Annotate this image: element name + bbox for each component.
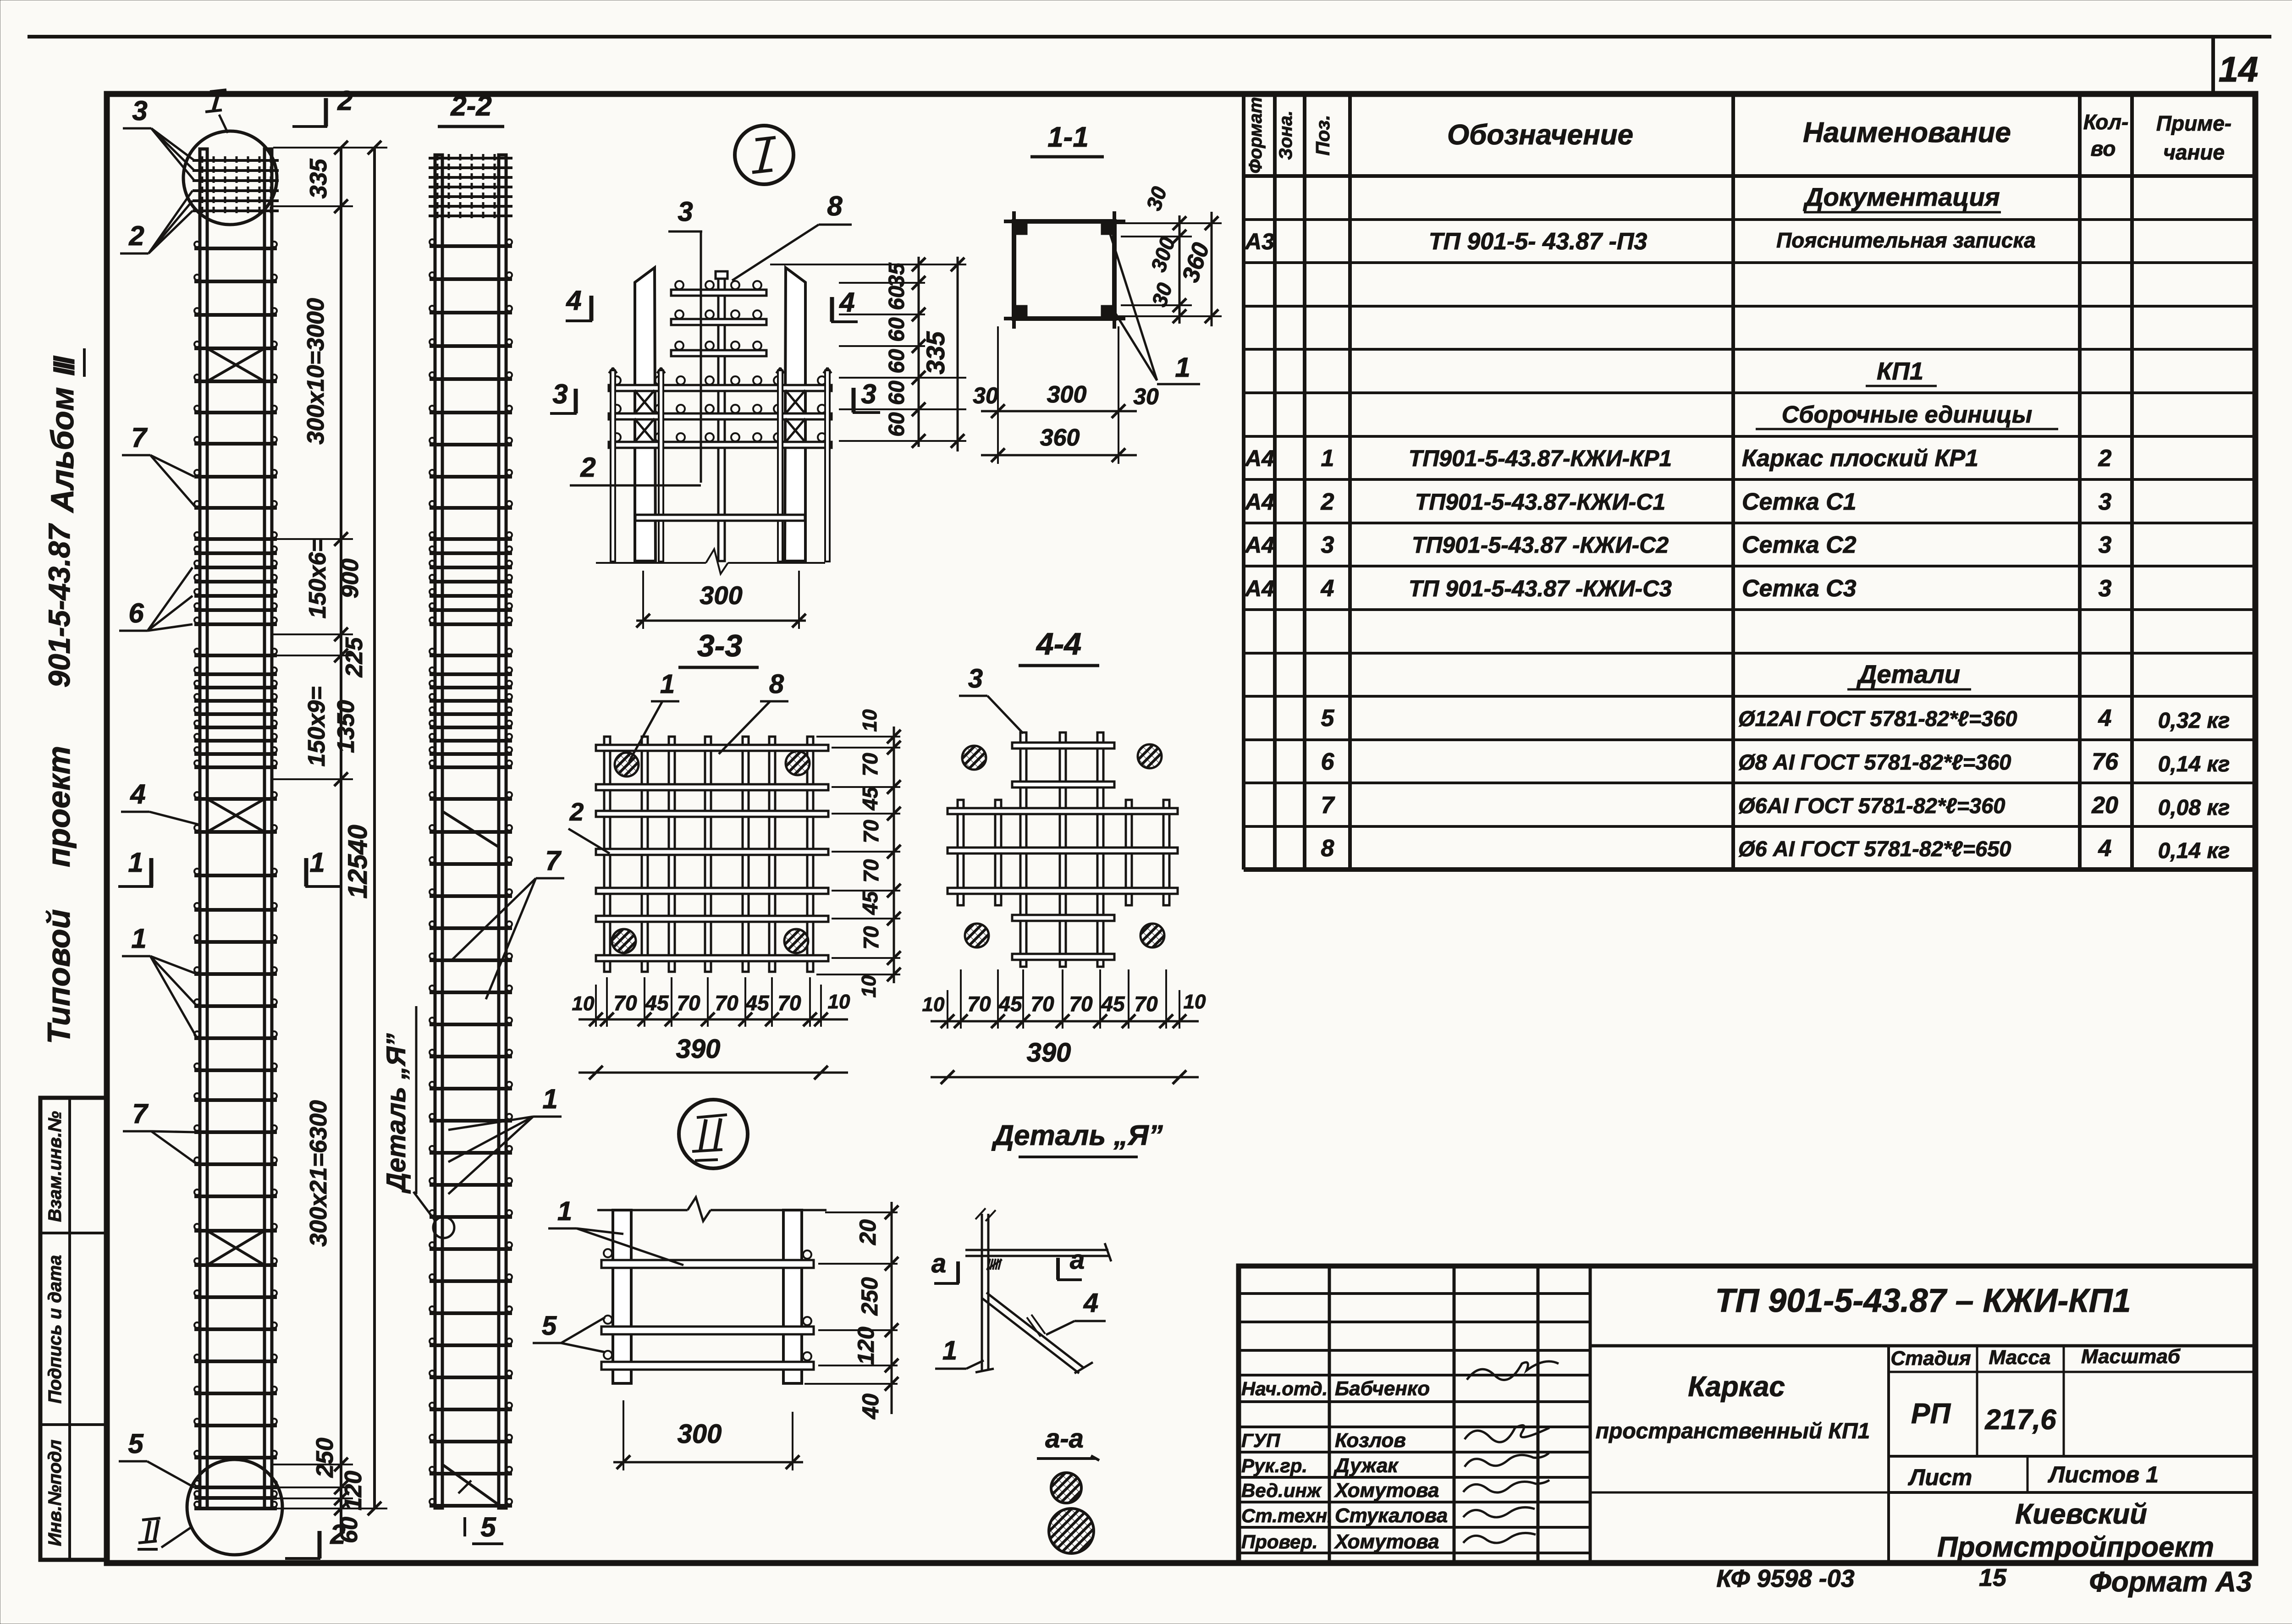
2-2 view: cross ties (rungs) — [430, 244, 512, 248]
svg-text:Документация: Документация — [1803, 182, 2000, 211]
2-2 view: top mesh zone lines — [429, 157, 512, 160]
detail II: right chord bar — [783, 1210, 802, 1383]
3-3 mesh horizontal wires — [596, 745, 828, 751]
detail I: bottom break line — [596, 562, 706, 564]
svg-text:335: 335 — [921, 331, 950, 374]
svg-text:1: 1 — [1321, 445, 1334, 472]
svg-text:7: 7 — [545, 845, 562, 876]
svg-text:4-4: 4-4 — [1036, 627, 1081, 661]
svg-text:70: 70 — [613, 991, 637, 1015]
svg-text:150х6=: 150х6= — [304, 539, 331, 619]
detail II bottom 300 dimension — [623, 1400, 624, 1470]
detail I: right flat bar — [785, 268, 805, 561]
dimension chain line (segments) — [340, 148, 342, 1533]
svg-text:ГУП: ГУП — [1241, 1430, 1280, 1451]
KP1 elevation: cross ties (rungs) — [194, 247, 277, 250]
svg-text:0,32 кг: 0,32 кг — [2158, 709, 2230, 733]
3-3 overall 390 dimension — [579, 1072, 848, 1074]
svg-text:2: 2 — [2098, 445, 2112, 472]
svg-text:Наименование: Наименование — [1803, 117, 2011, 149]
svg-text:335: 335 — [305, 159, 332, 199]
svg-text:Хомутова: Хомутова — [1333, 1530, 1439, 1553]
svg-text:3-3: 3-3 — [697, 628, 742, 663]
svg-text:70: 70 — [1134, 992, 1158, 1016]
svg-text:Провер.: Провер. — [1241, 1531, 1318, 1552]
title block name cell: Каркас пространственный КП1 — [1887, 1346, 1890, 1563]
svg-text:217,6: 217,6 — [1984, 1404, 2056, 1436]
svg-text:Ø6АI ГОСТ 5781-82*ℓ=360: Ø6АI ГОСТ 5781-82*ℓ=360 — [1738, 793, 2005, 818]
svg-text:5: 5 — [542, 1311, 557, 1341]
svg-text:1: 1 — [942, 1336, 957, 1365]
svg-text:Листов 1: Листов 1 — [2048, 1462, 2159, 1487]
svg-text:А3: А3 — [1244, 229, 1274, 254]
specification table grid — [1242, 94, 1245, 870]
svg-text:30: 30 — [973, 383, 998, 408]
detail II: weld dots — [604, 1249, 612, 1257]
svg-text:7: 7 — [132, 1098, 149, 1129]
svg-text:Альбом: Альбом — [44, 387, 80, 513]
svg-text:a-a: a-a — [1045, 1424, 1084, 1453]
svg-text:Рук.гр.: Рук.гр. — [1241, 1455, 1307, 1476]
svg-text:Деталь „Я”: Деталь „Я” — [381, 1033, 411, 1194]
detail I dimension extension lines — [770, 264, 966, 265]
svg-text:КП1: КП1 — [1877, 358, 1923, 385]
2-2 view: left chord rail — [435, 155, 442, 1508]
svg-text:проект: проект — [41, 746, 77, 867]
section 1-1 corner bars — [1014, 222, 1027, 235]
svg-text:Ø8 АI ГОСТ 5781-82*ℓ=360: Ø8 АI ГОСТ 5781-82*ℓ=360 — [1738, 750, 2011, 774]
2-2 view: diagonal brace bottom — [442, 1464, 499, 1505]
svg-text:Киевский: Киевский — [2015, 1498, 2147, 1530]
svg-text:ТП 901-5- 43.87 -П3: ТП 901-5- 43.87 -П3 — [1429, 228, 1647, 255]
3-3 longitudinal bars (hatched) — [615, 753, 639, 776]
svg-text:30: 30 — [1133, 384, 1159, 409]
dimension ticks — [334, 141, 348, 154]
title block outer box — [1239, 1266, 2255, 1563]
svg-text:a: a — [931, 1249, 946, 1278]
svg-text:45: 45 — [858, 891, 882, 915]
svg-text:Каркас плоский КР1: Каркас плоский КР1 — [1742, 445, 1978, 472]
svg-text:3: 3 — [1321, 532, 1334, 558]
svg-text:360: 360 — [1040, 424, 1080, 451]
svg-text:3: 3 — [968, 664, 983, 694]
section 1-1 callout 1 — [1109, 231, 1157, 380]
svg-text:150х9=: 150х9= — [303, 687, 330, 767]
svg-text:1: 1 — [128, 847, 143, 878]
KP1 elevation: right chord rail — [264, 149, 272, 1508]
svg-text:4: 4 — [566, 285, 581, 316]
svg-text:А4: А4 — [1244, 489, 1274, 515]
svg-text:70: 70 — [859, 859, 883, 883]
svg-text:Формат А3: Формат А3 — [2089, 1566, 2252, 1598]
svg-text:ТП901-5-43.87-КЖИ-КР1: ТП901-5-43.87-КЖИ-КР1 — [1409, 446, 1672, 471]
view mark II below — [142, 1518, 160, 1520]
detail I: left flat bar — [635, 268, 656, 561]
svg-text:60: 60 — [885, 286, 909, 310]
svg-text:10: 10 — [1184, 991, 1206, 1013]
detail Ya: horizontal rod — [965, 1249, 1108, 1251]
svg-text:3: 3 — [861, 379, 876, 409]
svg-text:60: 60 — [885, 380, 909, 405]
svg-text:120: 120 — [853, 1327, 879, 1365]
KP1 elevation: X brace upper — [207, 348, 264, 381]
a-a section bars (hatched) — [1051, 1473, 1081, 1503]
svg-text:8: 8 — [1321, 835, 1334, 862]
svg-text:1: 1 — [542, 1084, 557, 1114]
svg-text:Формат: Формат — [1245, 97, 1266, 174]
svg-text:Сетка С3: Сетка С3 — [1742, 575, 1857, 602]
svg-text:3: 3 — [2099, 532, 2112, 558]
svg-text:Деталь „Я”: Деталь „Я” — [991, 1120, 1163, 1151]
detail Ya: weld hook — [987, 1259, 990, 1270]
detail II: cross rods — [601, 1260, 814, 1268]
4-4 bottom dimension chain — [960, 969, 962, 1029]
4-4 mesh short horizontal wires — [1012, 743, 1114, 749]
svg-text:ТП 901-5-43.87 – КЖИ-КП1: ТП 901-5-43.87 – КЖИ-КП1 — [1715, 1283, 2131, 1319]
svg-text:45: 45 — [858, 786, 882, 811]
svg-text:1: 1 — [660, 669, 675, 699]
svg-text:5: 5 — [480, 1512, 496, 1542]
svg-text:Типовой: Типовой — [41, 909, 77, 1044]
svg-text:2: 2 — [569, 798, 584, 826]
svg-text:300х21=6300: 300х21=6300 — [305, 1100, 332, 1247]
svg-text:6: 6 — [128, 598, 144, 628]
detail II circled mark — [679, 1100, 748, 1168]
svg-text:Бабченко: Бабченко — [1335, 1377, 1430, 1400]
dimension chain overall 12540 line — [373, 148, 376, 1508]
svg-text:2: 2 — [337, 85, 353, 116]
KP1 elevation: X brace lower — [207, 1231, 264, 1265]
svg-text:76: 76 — [2092, 749, 2119, 775]
svg-text:8: 8 — [827, 191, 843, 221]
title block signature grid — [1328, 1266, 1331, 1563]
svg-text:70: 70 — [859, 820, 883, 843]
2-2 view: right chord rail — [499, 155, 506, 1508]
svg-text:Ø6 АI ГОСТ 5781-82*ℓ=650: Ø6 АI ГОСТ 5781-82*ℓ=650 — [1738, 837, 2011, 861]
svg-text:Кол-: Кол- — [2083, 110, 2129, 134]
svg-text:4: 4 — [1321, 575, 1334, 602]
detail I overall 335 dimension line — [957, 257, 959, 451]
svg-text:Каркас: Каркас — [1688, 1371, 1785, 1403]
section 1-1 right dimensions — [1116, 222, 1222, 224]
svg-text:15: 15 — [1979, 1564, 2007, 1591]
svg-text:70: 70 — [967, 992, 991, 1016]
svg-text:ТП901-5-43.87-КЖИ-С1: ТП901-5-43.87-КЖИ-С1 — [1415, 489, 1665, 515]
KP1 elevation: X brace middle — [207, 799, 264, 832]
svg-text:ТП901-5-43.87 -КЖИ-С2: ТП901-5-43.87 -КЖИ-С2 — [1412, 532, 1669, 558]
svg-text:300: 300 — [678, 1419, 722, 1449]
svg-text:35: 35 — [885, 262, 909, 287]
svg-text:2: 2 — [580, 452, 595, 483]
svg-text:1350: 1350 — [333, 700, 359, 753]
svg-text:60: 60 — [885, 349, 909, 374]
svg-text:4: 4 — [130, 779, 145, 809]
svg-text:300: 300 — [700, 581, 742, 610]
svg-text:70: 70 — [858, 753, 882, 776]
svg-text:300: 300 — [1047, 381, 1087, 408]
svg-text:Масштаб: Масштаб — [2081, 1345, 2181, 1368]
svg-text:Ст.техн.: Ст.техн. — [1241, 1505, 1333, 1526]
title block document number cell — [1590, 1344, 2255, 1348]
detail I circle on elevation top — [183, 131, 277, 225]
svg-text:4: 4 — [2098, 705, 2112, 732]
svg-text:Поз.: Поз. — [1312, 115, 1333, 156]
svg-text:300х10=3000: 300х10=3000 — [303, 298, 329, 445]
svg-text:Промстройпроект: Промстройпроект — [1937, 1531, 2214, 1563]
svg-text:40: 40 — [858, 1393, 883, 1420]
svg-text:0,14 кг: 0,14 кг — [2158, 839, 2230, 863]
svg-text:0,14 кг: 0,14 кг — [2158, 752, 2230, 776]
svg-text:ТП 901-5-43.87 -КЖИ-С3: ТП 901-5-43.87 -КЖИ-С3 — [1409, 576, 1672, 601]
detail II circle on elevation bottom — [187, 1459, 282, 1555]
svg-text:390: 390 — [676, 1034, 721, 1064]
svg-text:Приме-: Приме- — [2156, 111, 2231, 135]
svg-text:14: 14 — [2219, 49, 2259, 89]
svg-text:3: 3 — [132, 95, 147, 126]
svg-text:5: 5 — [128, 1428, 144, 1459]
title block Стадия Масса Масштаб header — [1889, 1371, 2255, 1373]
svg-text:2: 2 — [128, 220, 144, 251]
svg-text:Вед.инж: Вед.инж — [1241, 1480, 1322, 1501]
svg-text:Обозначение: Обозначение — [1447, 119, 1633, 151]
svg-text:4: 4 — [1083, 1288, 1098, 1318]
sheet top edge line — [28, 35, 2271, 39]
svg-text:РП: РП — [1911, 1398, 1951, 1430]
svg-text:Пояснительная записка: Пояснительная записка — [1776, 228, 2036, 252]
svg-text:3: 3 — [2099, 489, 2112, 515]
svg-text:7: 7 — [131, 422, 148, 453]
extension lines from elevation to dimension lines — [273, 147, 387, 149]
svg-text:a: a — [1070, 1245, 1085, 1275]
svg-text:2-2: 2-2 — [450, 90, 492, 122]
detail I segment dimension line — [918, 257, 920, 447]
svg-text:Взам.инв.№: Взам.инв.№ — [45, 1111, 65, 1222]
svg-text:70: 70 — [1069, 992, 1093, 1016]
section 1-1 stirrup square — [1014, 221, 1114, 319]
title block signatures (scribbles) — [1463, 1361, 1559, 1543]
KP1 elevation: left chord rail — [200, 149, 207, 1508]
4-4 mesh long vertical wires — [1020, 732, 1026, 967]
svg-text:А4: А4 — [1244, 446, 1274, 471]
detail I: upper mesh rods — [671, 290, 766, 296]
svg-text:7: 7 — [1321, 792, 1335, 819]
svg-text:пространственный КП1: пространственный КП1 — [1596, 1419, 1870, 1443]
svg-text:60: 60 — [885, 412, 909, 437]
KP1 elevation: top mesh zone lines with cross-wire ticks — [193, 159, 279, 162]
svg-text:Стадия: Стадия — [1890, 1347, 1971, 1370]
svg-text:3: 3 — [2099, 575, 2112, 602]
svg-text:10: 10 — [828, 991, 850, 1013]
svg-text:0,08 кг: 0,08 кг — [2158, 796, 2230, 820]
svg-text:20: 20 — [855, 1219, 881, 1245]
detail I circled mark — [735, 126, 793, 184]
detail Ya marker circle on 2-2 — [433, 1217, 454, 1238]
svg-text:1: 1 — [1175, 352, 1190, 383]
svg-text:1: 1 — [557, 1196, 572, 1226]
4-4 overall 390 dimension — [931, 1076, 1199, 1079]
detail Ya: diagonal rod pos.4 — [986, 1293, 1084, 1368]
svg-text:во: во — [2091, 137, 2116, 160]
svg-text:А4: А4 — [1244, 576, 1274, 601]
svg-text:3: 3 — [552, 379, 567, 409]
detail I: lower tie rod — [635, 515, 805, 521]
svg-text:10: 10 — [922, 993, 945, 1016]
view mark I above circle — [214, 91, 219, 110]
svg-text:Дужак: Дужак — [1333, 1454, 1399, 1477]
svg-text:А4: А4 — [1244, 532, 1274, 558]
svg-text:Подпись и дата: Подпись и дата — [45, 1255, 65, 1404]
detail I: outer vertical wires — [611, 370, 615, 562]
svg-text:10: 10 — [572, 992, 595, 1015]
svg-text:60: 60 — [885, 317, 909, 342]
svg-text:Масса: Масса — [1989, 1346, 2050, 1369]
svg-text:45: 45 — [645, 991, 669, 1015]
svg-text:2: 2 — [1321, 489, 1334, 515]
svg-text:Сборочные единицы: Сборочные единицы — [1782, 402, 2033, 428]
svg-text:45: 45 — [998, 992, 1023, 1016]
svg-text:70: 70 — [1030, 992, 1054, 1016]
detail I bottom 300 dimension — [642, 571, 644, 629]
2-2 view: diagonal brace middle — [442, 811, 499, 847]
3-3 right dimension chain — [893, 727, 895, 983]
svg-text:45: 45 — [1101, 992, 1125, 1016]
detail Ya: vertical rod pos.1 — [981, 1214, 983, 1371]
svg-text:Хомутова: Хомутова — [1333, 1479, 1439, 1502]
svg-text:1-1: 1-1 — [1047, 121, 1089, 153]
left margin stamp box — [40, 1098, 107, 1560]
svg-text:8: 8 — [769, 669, 784, 699]
svg-text:Инв.№подл: Инв.№подл — [45, 1440, 65, 1547]
svg-text:10: 10 — [858, 975, 880, 997]
svg-text:250: 250 — [312, 1438, 338, 1478]
svg-text:Зона.: Зона. — [1276, 110, 1296, 160]
svg-text:10: 10 — [859, 709, 881, 732]
svg-text:Нач.отд.: Нач.отд. — [1241, 1378, 1328, 1399]
svg-text:КФ 9598 -03: КФ 9598 -03 — [1716, 1565, 1854, 1592]
3-3 mesh vertical wires — [604, 737, 610, 972]
svg-text:900: 900 — [337, 559, 364, 599]
detail I: chord cross marks — [634, 390, 655, 414]
4-4 mesh long horizontal wires — [948, 808, 1178, 814]
detail I: center vertical rod pos.8 — [718, 277, 725, 561]
svg-text:4: 4 — [2098, 835, 2112, 862]
section 1-1 bottom dimensions — [997, 326, 999, 464]
svg-text:Козлов: Козлов — [1335, 1429, 1406, 1452]
svg-text:Стукалова: Стукалова — [1335, 1504, 1448, 1527]
title block Лист row — [1889, 1455, 2255, 1458]
svg-text:225: 225 — [341, 637, 368, 678]
svg-text:Ø12АI ГОСТ 5781-82*ℓ=360: Ø12АI ГОСТ 5781-82*ℓ=360 — [1738, 706, 2017, 731]
svg-text:1: 1 — [309, 847, 325, 878]
3-3 bottom dimension chain — [606, 977, 608, 1027]
svg-text:901-5-43.87: 901-5-43.87 — [42, 523, 76, 688]
svg-text:70: 70 — [777, 991, 801, 1015]
detail II: left chord bar — [613, 1210, 631, 1383]
svg-text:70: 70 — [715, 991, 738, 1015]
svg-text:Лист: Лист — [1908, 1464, 1972, 1490]
page number cell divider — [2211, 37, 2215, 95]
svg-text:70: 70 — [859, 926, 883, 950]
svg-text:60: 60 — [336, 1517, 363, 1543]
svg-text:70: 70 — [677, 991, 700, 1015]
detail II right dimension chain — [891, 1202, 893, 1414]
detail I: lower cage rods — [609, 385, 832, 391]
svg-text:Сетка С1: Сетка С1 — [1742, 489, 1857, 515]
svg-text:390: 390 — [1027, 1038, 1071, 1068]
svg-text:Детали: Детали — [1857, 660, 1960, 688]
svg-text:45: 45 — [745, 991, 770, 1015]
4-4 mesh short vertical wires — [958, 800, 964, 905]
svg-text:6: 6 — [1321, 749, 1335, 775]
svg-text:4: 4 — [839, 287, 854, 318]
svg-text:20: 20 — [2091, 792, 2118, 819]
detail II: top break line — [597, 1209, 688, 1211]
svg-text:Сетка С2: Сетка С2 — [1742, 532, 1857, 558]
4-4 longitudinal bars (hatched) — [962, 746, 986, 770]
svg-text:чание: чание — [2163, 140, 2225, 164]
svg-text:5: 5 — [1321, 705, 1335, 732]
svg-text:3: 3 — [678, 196, 693, 227]
svg-text:120: 120 — [340, 1471, 367, 1511]
svg-text:12540: 12540 — [343, 825, 373, 898]
svg-text:1: 1 — [131, 923, 146, 954]
svg-text:250: 250 — [857, 1277, 882, 1316]
